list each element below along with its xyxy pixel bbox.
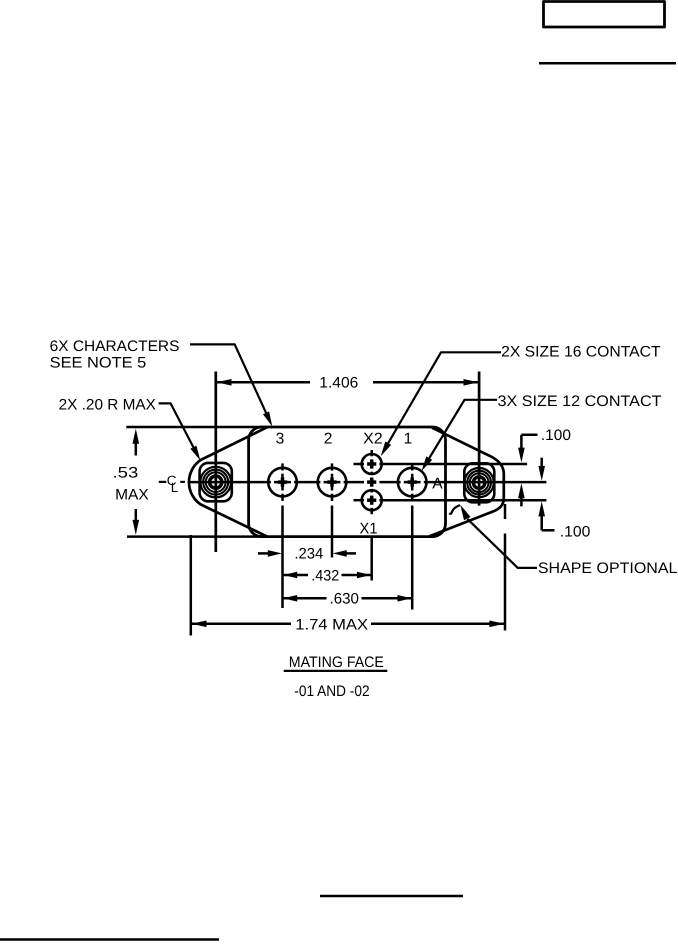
svg-text:2X .20 R MAX: 2X .20 R MAX (59, 396, 156, 413)
left mounting hole vertical centerline (1.406 extension) (214, 372, 217, 553)
svg-text:2: 2 (324, 430, 333, 447)
leader: 2X SIZE 16 CONTACT (383, 352, 501, 452)
svg-text:MAX: MAX (115, 487, 149, 504)
right mounting ear (shape optional) (430, 428, 504, 537)
X2/X1 column vertical centerline / extension (370, 450, 373, 581)
footer rule (bottom center) (320, 895, 463, 898)
X2 row line (y=464.0) (354, 463, 528, 466)
leader: 2X .20 R MAX (159, 403, 198, 456)
svg-text:.432: .432 (311, 567, 339, 584)
svg-text:.630: .630 (330, 590, 359, 607)
svg-text:-01 AND -02: -01 AND -02 (294, 683, 369, 700)
header rule (top right) (539, 62, 676, 65)
.53 MAX dimension arrows (135, 441, 138, 456)
contact 1 vertical centerline / extension (411, 463, 414, 609)
svg-text:MATING FACE: MATING FACE (289, 654, 384, 671)
right mounting hole (threaded insert bullseye) (464, 463, 494, 502)
svg-text:.100: .100 (541, 427, 571, 444)
svg-text:1.406: 1.406 (319, 374, 358, 391)
centerline symbol dashes near CL (159, 481, 167, 483)
leader: SHAPE OPTIONAL (with curled arrow) (467, 519, 537, 568)
1.74 MAX dimension line (192, 623, 291, 626)
svg-text:.234: .234 (294, 546, 323, 563)
leader: 3X SIZE 12 CONTACT (424, 400, 497, 467)
left mounting ear with .20 R nose (189, 427, 267, 536)
contact 2 vertical centerline / extension (331, 463, 334, 557)
leader: 6X CHARACTERS (190, 344, 270, 422)
.100 bottom dimension (centerline to X1 row) (540, 458, 543, 467)
svg-text:.100: .100 (560, 524, 591, 541)
svg-text:A: A (432, 476, 443, 493)
footer rule (bottom left) (0, 938, 219, 941)
svg-text:.53: .53 (113, 464, 139, 481)
right mounting hole vertical centerline (1.406 extension) (478, 372, 481, 506)
svg-text:X1: X1 (360, 521, 378, 538)
.630 dimension line (283, 597, 326, 600)
contact 1 (size 12) (398, 468, 427, 497)
contact 3 (size 12) (268, 468, 297, 497)
svg-text:3: 3 (276, 430, 285, 447)
.234 dimension arrows (outside) (258, 552, 269, 555)
.53 MAX bottom extension line (127, 535, 266, 538)
svg-text:1: 1 (404, 430, 413, 447)
title block box (top right) (544, 2, 665, 28)
svg-text:3X SIZE 12 CONTACT: 3X SIZE 12 CONTACT (498, 393, 662, 410)
connector body (central rounded rectangle, mating face outline) (249, 427, 446, 537)
svg-text:L: L (171, 480, 179, 495)
.53 MAX top extension line (126, 426, 268, 429)
svg-text:6X CHARACTERS: 6X CHARACTERS (50, 338, 180, 355)
svg-text:SEE NOTE 5: SEE NOTE 5 (50, 355, 147, 372)
contact 2 (size 12) (318, 468, 347, 497)
main horizontal centerline (y=482.1) (190, 481, 547, 484)
svg-text:X2: X2 (363, 430, 383, 447)
1.406 dimension line (217, 381, 310, 384)
svg-text:SHAPE OPTIONAL: SHAPE OPTIONAL (538, 560, 678, 577)
svg-text:2X SIZE 16 CONTACT: 2X SIZE 16 CONTACT (501, 344, 660, 361)
contact X1 (size 16) (362, 490, 382, 510)
center marks (thick crosses on contacts) (278, 459, 417, 504)
.432 dimension line (283, 574, 308, 577)
contact X2 (size 16) (362, 454, 382, 474)
X1 row line (y=500.2) (354, 499, 547, 502)
.100 top dimension (X2 row to centerline) (521, 434, 537, 437)
contact 3 vertical centerline / extension (281, 463, 284, 608)
left mounting hole (threaded insert bullseye) (200, 463, 232, 501)
svg-text:1.74 MAX: 1.74 MAX (295, 616, 368, 633)
1.74 MAX extension lines (190, 535, 193, 636)
